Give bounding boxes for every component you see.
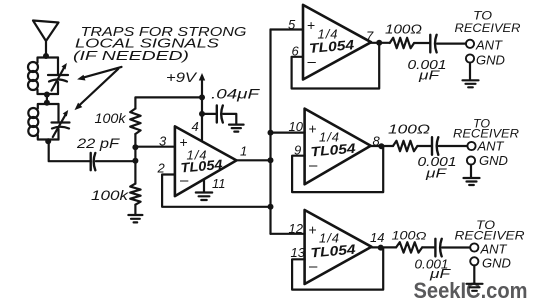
op-amp U3 (1/4 TL054) (305, 109, 371, 185)
svg-text:100k: 100k (91, 187, 129, 203)
wire R4 to C6 (417, 145, 432, 147)
wire U4 pin12 input (271, 233, 305, 235)
terminal ANT (receiver 2) (467, 142, 475, 150)
ground (receiver 3) (467, 284, 483, 291)
node U2 output junction (376, 40, 382, 46)
wire U1 output pin1 to bus (237, 159, 271, 161)
antenna (33, 21, 59, 58)
power +9V arrow (199, 73, 205, 140)
wire C3 to divider node (96, 160, 136, 162)
resistor R5 100ohm (396, 242, 422, 252)
svg-text:1: 1 (240, 144, 247, 159)
wire U3 pin10 input (271, 132, 305, 134)
svg-text:RECEIVER: RECEIVER (455, 21, 521, 35)
wire U4 output pin14 (372, 246, 397, 248)
capacitor C7 0.001uF (435, 239, 441, 257)
svg-text:100Ω: 100Ω (385, 22, 422, 37)
terminal ANT (receiver 3) (470, 243, 478, 251)
svg-text:6: 6 (292, 44, 300, 59)
node divider / pin3 tap (132, 144, 138, 150)
svg-text:+: + (309, 222, 317, 238)
svg-text:2: 2 (157, 161, 166, 176)
op-amp U1 (1/4 TL054) (175, 126, 237, 196)
inductor L2 (28, 108, 38, 118)
svg-text:10: 10 (289, 119, 304, 134)
annotation arrow to trap1 (77, 67, 121, 81)
wire U3 pin9 feedback loop (292, 146, 383, 192)
ground (receiver 2) (464, 178, 480, 185)
wire divider top to +9V rail (135, 97, 202, 108)
wire pin11 to ground (203, 180, 205, 192)
svg-text:.04μF: .04μF (211, 86, 261, 102)
svg-text:100Ω: 100Ω (388, 122, 430, 137)
node +9V / R1 junction (199, 94, 205, 100)
wire C4 to ground (223, 114, 236, 124)
wire U2 pin5 input (271, 28, 304, 30)
svg-text:12: 12 (289, 221, 304, 236)
resistor R1 100k (upper) (130, 109, 140, 135)
op-amp U4 (1/4 TL054) (305, 210, 372, 284)
wire C6 to ANT terminal (439, 145, 468, 147)
trap 2 (parallel L / variable C) (28, 104, 69, 140)
svg-text:100k: 100k (95, 110, 127, 126)
resistor R4 100ohm (393, 141, 417, 151)
ground (receiver 1) (463, 80, 479, 87)
variable capacitor C1 (48, 58, 68, 95)
node U3 output junction (378, 143, 384, 149)
node divider / 22pF tap (132, 158, 138, 164)
node trap2 bottom junction (45, 138, 51, 144)
svg-text:9: 9 (294, 143, 301, 158)
svg-text:ANT: ANT (480, 242, 508, 257)
wire trap2 to C3 (49, 140, 91, 162)
wire pin3 input (135, 146, 175, 148)
svg-text:μF: μF (425, 166, 448, 181)
wire R2 to ground (134, 205, 136, 215)
svg-text:13: 13 (291, 245, 306, 260)
wire R3 to C5 (414, 42, 430, 44)
node +9V / C4 junction (199, 111, 205, 117)
ground (C4) (229, 125, 244, 132)
node trap1-trap2 junction bottom (44, 100, 50, 106)
svg-text:ANT: ANT (477, 139, 505, 154)
wire divider middle (134, 134, 136, 184)
annotation arrow to trap2 (75, 69, 119, 110)
capacitor C3 22pF (91, 153, 96, 170)
svg-text:GND: GND (479, 153, 508, 168)
svg-text:11: 11 (212, 176, 226, 191)
capacitor C6 0.001uF (432, 137, 438, 155)
node U1 feedback / bus junction (268, 204, 274, 210)
resistor R2 100k (lower) (130, 184, 140, 205)
wire R5 to C7 (422, 246, 435, 248)
svg-text:SeekIC.com: SeekIC.com (414, 278, 528, 303)
ground (U1 pin11) (196, 193, 212, 201)
node antenna-trap1 junction (43, 53, 49, 59)
svg-text:μF: μF (418, 68, 441, 83)
terminal GND (receiver 1) (466, 54, 474, 62)
wire C7 to ANT terminal (442, 246, 470, 248)
svg-text:14: 14 (370, 230, 384, 245)
wire (46, 94, 48, 104)
resistor R3 100ohm (390, 38, 414, 48)
wire GND terminal to ground (470, 165, 472, 178)
svg-text:8: 8 (373, 134, 381, 149)
svg-text:(IF NEEDED): (IF NEEDED) (73, 48, 189, 63)
wire bus vertical (269, 30, 271, 234)
svg-text:GND: GND (476, 53, 505, 68)
node U4 output junction (378, 245, 384, 251)
svg-text:+: + (307, 17, 315, 33)
wire U2 pin6 feedback loop (292, 43, 380, 89)
inductor L1 (28, 62, 38, 72)
svg-text:RECEIVER: RECEIVER (455, 229, 525, 243)
node trap1-trap2 junction top (44, 92, 50, 98)
variable capacitor C2 (52, 104, 70, 140)
terminal GND (receiver 3) (470, 257, 478, 265)
trap 1 (parallel L / variable C) (28, 58, 68, 95)
svg-text:7: 7 (366, 29, 374, 44)
wire U4 pin13 feedback loop (292, 248, 383, 290)
svg-text:5: 5 (288, 17, 296, 32)
wire GND terminal to ground (473, 265, 475, 283)
svg-text:22 pF: 22 pF (76, 135, 121, 151)
svg-text:μF: μF (429, 266, 452, 281)
terminal GND (receiver 2) (467, 156, 475, 164)
terminal ANT (receiver 1) (466, 40, 474, 48)
node bus / U3 input tap (268, 130, 274, 136)
op-amp U2 (1/4 TL054) (303, 5, 371, 80)
wire U3 output pin8 (371, 145, 393, 147)
svg-text:+9V: +9V (166, 69, 198, 85)
wire C5 to ANT terminal (437, 42, 466, 44)
capacitor C4 .04uF (217, 106, 223, 123)
svg-text:3: 3 (159, 134, 167, 149)
wire to C4 (202, 113, 217, 115)
capacitor C5 0.001uF (430, 35, 436, 53)
node U1 output / bus junction (268, 157, 274, 163)
svg-text:ANT: ANT (475, 38, 503, 53)
wire pin2 input + feedback to bus (162, 175, 270, 207)
svg-text:4: 4 (192, 119, 199, 134)
svg-text:100Ω: 100Ω (392, 231, 427, 243)
svg-text:GND: GND (482, 256, 511, 271)
wire U2 output pin7 (371, 42, 390, 44)
svg-text:+: + (309, 121, 317, 137)
ground (divider) (128, 215, 142, 222)
wire GND terminal to ground (469, 63, 471, 80)
